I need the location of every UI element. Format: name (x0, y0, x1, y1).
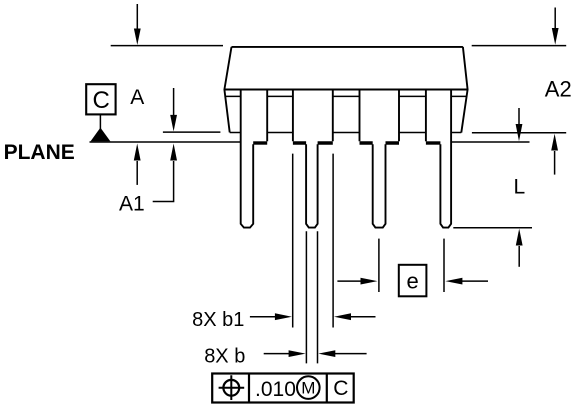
lead 2 (293, 90, 333, 228)
package body left chamfer edge (224, 47, 231, 132)
lead 3 (360, 90, 400, 228)
package body parting line (224, 89, 467, 91)
dimension b1 right extension line (332, 154, 334, 328)
package body mold band line (225, 95, 467, 97)
package body right chamfer edge (461, 47, 467, 133)
dimension b1 left extension line (292, 154, 294, 328)
svg-text:8X b1: 8X b1 (192, 309, 244, 331)
dimension A bottom arrow (134, 144, 141, 185)
dimension A1 bottom arrow (153, 144, 177, 202)
dimension b1 right arrow (334, 313, 376, 320)
dimension L top arrow (516, 108, 523, 141)
svg-text:M: M (301, 379, 315, 398)
dimension b left arrow (264, 350, 306, 357)
dimension b right arrow (318, 350, 366, 357)
svg-text:.010: .010 (255, 378, 296, 401)
dimension L bottom arrow (516, 229, 523, 267)
dimension A2 top arrow (552, 8, 559, 45)
svg-text:A2: A2 (545, 77, 572, 102)
dimension e right extension line (443, 239, 445, 292)
dimension e left extension line (378, 239, 380, 292)
datum stem (99, 114, 101, 130)
dimension b1 left arrow (250, 313, 292, 320)
svg-text:L: L (514, 175, 526, 198)
dimension e box (399, 265, 427, 297)
svg-text:A1: A1 (119, 193, 145, 216)
feature control frame (212, 374, 354, 403)
lead tip extension line (453, 227, 532, 229)
lead 4 (426, 90, 451, 228)
MMC modifier symbol (297, 376, 320, 399)
dimension A top extension line (111, 45, 223, 47)
lead 1 (241, 90, 268, 228)
svg-text:C: C (333, 377, 348, 400)
datum triangle (91, 128, 111, 142)
dimension e right arrow (445, 278, 488, 285)
position tolerance symbol (219, 375, 245, 400)
svg-text:PLANE: PLANE (4, 141, 75, 164)
dimension b left extension line (305, 231, 307, 363)
svg-text:A: A (130, 86, 144, 109)
svg-text:C: C (93, 87, 110, 114)
svg-text:e: e (407, 269, 419, 294)
seating plane line (90, 141, 530, 143)
datum C frame (86, 84, 115, 114)
svg-text:8X b: 8X b (204, 345, 245, 367)
package body bottom edge (230, 132, 462, 134)
body bottom left extension line (163, 131, 221, 133)
package body top edge (232, 46, 463, 48)
dimension A2 top extension line (472, 45, 567, 47)
dimension e left arrow (337, 278, 377, 285)
body bottom right extension line (472, 132, 566, 134)
dimension b right extension line (317, 231, 319, 363)
dimension A top arrow (134, 4, 141, 45)
dimension A2 bottom arrow (551, 134, 558, 175)
dimension A1 top arrow (170, 88, 177, 131)
